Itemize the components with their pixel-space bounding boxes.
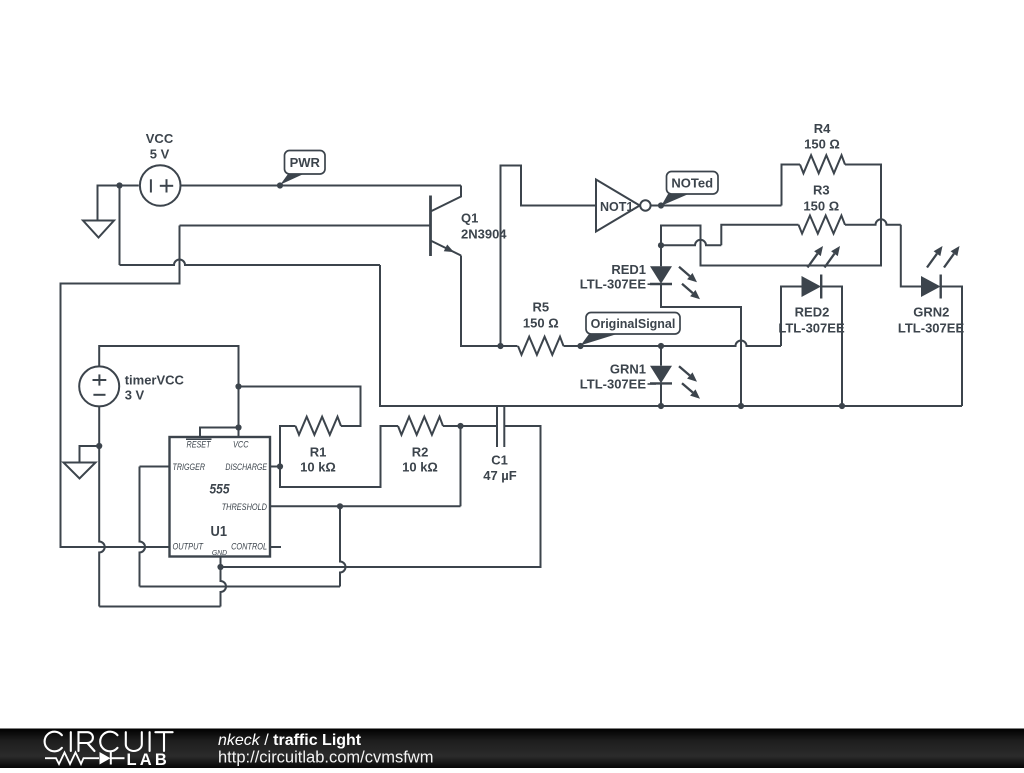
svg-text:LAB: LAB — [127, 751, 171, 768]
svg-text:LTL-307EE: LTL-307EE — [580, 377, 647, 392]
svg-text:10 kΩ: 10 kΩ — [300, 460, 336, 475]
svg-text:NOT1: NOT1 — [600, 200, 633, 214]
svg-text:TRIGGER: TRIGGER — [173, 462, 206, 472]
svg-text:555: 555 — [210, 480, 230, 496]
svg-text:timerVCC: timerVCC — [125, 373, 185, 388]
svg-text:LTL-307EE: LTL-307EE — [580, 277, 647, 292]
svg-text:http://circuitlab.com/cvmsfwm: http://circuitlab.com/cvmsfwm — [218, 749, 433, 767]
svg-text:C1: C1 — [491, 453, 508, 468]
svg-text:10 kΩ: 10 kΩ — [402, 460, 438, 475]
svg-text:CONTROL: CONTROL — [231, 542, 267, 552]
svg-text:R2: R2 — [412, 445, 429, 460]
svg-text:VCC: VCC — [146, 131, 174, 146]
svg-text:2N3904: 2N3904 — [461, 227, 507, 242]
svg-text:THRESHOLD: THRESHOLD — [222, 502, 268, 512]
svg-text:3 V: 3 V — [125, 388, 145, 403]
svg-text:OriginalSignal: OriginalSignal — [591, 317, 676, 331]
svg-text:VCC: VCC — [233, 439, 249, 449]
svg-text:150 Ω: 150 Ω — [803, 199, 839, 214]
svg-text:NOTed: NOTed — [671, 175, 713, 190]
svg-text:LTL-307EE: LTL-307EE — [898, 321, 965, 336]
svg-text:R1: R1 — [310, 445, 327, 460]
svg-text:47 µF: 47 µF — [483, 468, 517, 483]
svg-text:GRN2: GRN2 — [913, 305, 949, 320]
svg-text:PWR: PWR — [290, 155, 321, 170]
svg-text:RED2: RED2 — [795, 305, 830, 320]
svg-text:LTL-307EE: LTL-307EE — [778, 321, 845, 336]
svg-text:GND: GND — [212, 548, 228, 557]
svg-text:R4: R4 — [814, 121, 831, 136]
svg-text:RED1: RED1 — [611, 262, 646, 277]
svg-text:U1: U1 — [211, 523, 228, 540]
svg-text:nkeck / traffic Light: nkeck / traffic Light — [218, 732, 362, 749]
svg-text:Q1: Q1 — [461, 211, 478, 226]
svg-text:5 V: 5 V — [150, 147, 170, 162]
svg-text:OUTPUT: OUTPUT — [173, 542, 205, 552]
svg-text:DISCHARGE: DISCHARGE — [225, 462, 267, 472]
svg-text:GRN1: GRN1 — [610, 362, 646, 377]
svg-text:RESET: RESET — [187, 439, 212, 449]
svg-text:150 Ω: 150 Ω — [804, 137, 840, 152]
svg-text:R3: R3 — [813, 183, 830, 198]
svg-text:150 Ω: 150 Ω — [523, 316, 559, 331]
svg-text:R5: R5 — [532, 300, 549, 315]
